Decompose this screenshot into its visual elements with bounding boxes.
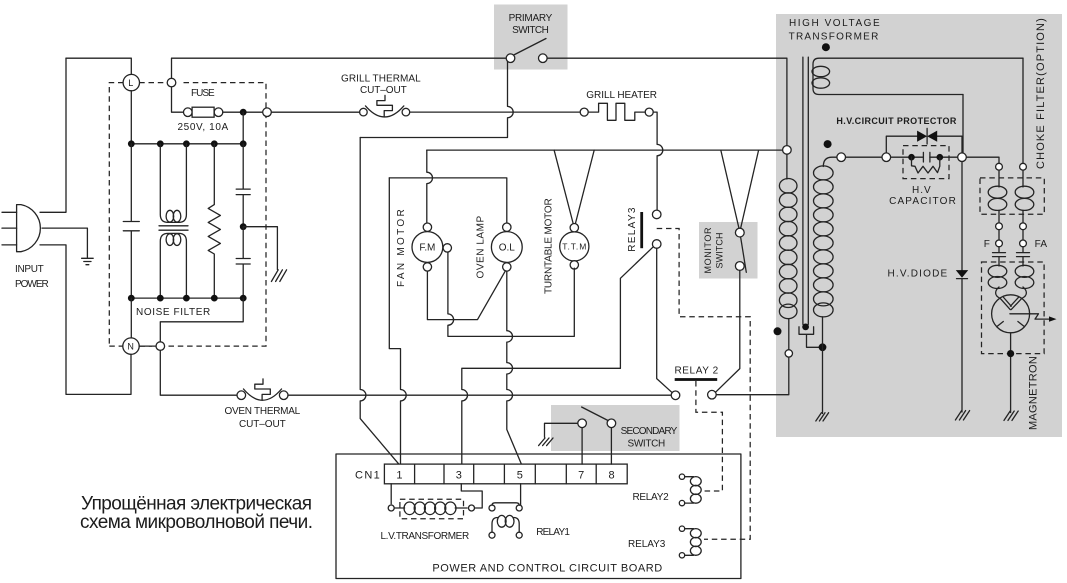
svg-text:OVEN THERMAL: OVEN THERMAL	[225, 406, 301, 417]
wire grill cut-out to grill heater	[410, 111, 581, 113]
top bus of filter	[131, 143, 243, 145]
magnetron anode ticks	[997, 322, 1025, 327]
motor rail	[427, 149, 787, 151]
relay3 contact bar	[640, 212, 643, 248]
oven thermal cut-out	[237, 391, 246, 400]
svg-text:F: F	[984, 239, 990, 250]
input power plug P1	[17, 205, 41, 252]
choke left wire top circle	[996, 163, 1003, 170]
relay3 feed wire to CN1 pin3 (hop over neutral)	[462, 368, 621, 464]
svg-text:SWITCH: SWITCH	[628, 439, 666, 450]
svg-text:RELAY2: RELAY2	[632, 492, 669, 503]
svg-text:H.V: H.V	[912, 185, 931, 196]
filament winding	[813, 58, 1023, 94]
wire filter output to grill cut-out	[271, 111, 359, 113]
wire node A up to rail	[172, 58, 506, 78]
grill heater element	[580, 108, 588, 116]
plug prong top	[2, 211, 17, 213]
svg-text:O.L: O.L	[499, 243, 515, 254]
relay1 contact bridge	[492, 503, 519, 506]
svg-text:MAGNETRON: MAGNETRON	[1028, 356, 1040, 430]
svg-text:GRILL THERMAL: GRILL THERMAL	[341, 74, 421, 85]
svg-text:POWER AND CONTROL CIRCUIT B: POWER AND CONTROL CIRCUIT BOARD	[432, 563, 662, 575]
wire monitor switch down to relay2 right	[716, 270, 740, 391]
core bottom junction dot	[802, 324, 809, 331]
magnetron cathode V	[1000, 297, 1021, 310]
grill cut-out bimetal step	[377, 95, 393, 116]
svg-text:TRANSFORMER: TRANSFORMER	[789, 32, 879, 43]
secondary switch SW2	[578, 419, 587, 428]
transformer core	[803, 57, 808, 324]
svg-text:1: 1	[396, 470, 402, 482]
plug prong middle	[2, 227, 17, 229]
svg-text:H.V.DIODE: H.V.DIODE	[888, 269, 948, 280]
lower choke coils	[999, 262, 1023, 266]
ground (magnetron)	[1004, 411, 1018, 420]
svg-text:CN1: CN1	[355, 469, 380, 481]
FM right terminal	[443, 244, 451, 252]
wire relay3 bottom to relay2 left	[657, 248, 672, 392]
junction dot secondary/core	[819, 343, 827, 351]
wire primary switch left contact down (hop over grill line)	[360, 62, 513, 138]
primary switch gray box	[494, 5, 568, 70]
turntable motor TTM	[560, 232, 589, 261]
svg-text:TURNTABLE MOTOR: TURNTABLE MOTOR	[544, 198, 555, 294]
svg-text:H.V.CIRCUIT PROTECTOR: H.V.CIRCUIT PROTECTOR	[836, 116, 957, 126]
wire OL bottom down to CN1 pin5 (3 hops)	[507, 271, 522, 464]
svg-text:RELAY3: RELAY3	[627, 207, 638, 252]
wire plug earth	[42, 228, 87, 258]
secondary winding (coil B)	[823, 157, 837, 166]
filter output node circle	[156, 342, 165, 351]
V-wires to turntable motor	[554, 150, 594, 224]
HV rail node circle 2	[882, 153, 891, 162]
junction dot magnetron ground	[1007, 350, 1014, 357]
plug prong bottom	[2, 244, 17, 246]
svg-text:MONITOR: MONITOR	[703, 227, 713, 274]
wire lamp rail down to CN1 pin1 (jog, hop over neutral)	[389, 178, 406, 464]
bottom bus of filter	[131, 297, 243, 299]
svg-text:8: 8	[609, 470, 615, 482]
grill cut-out arc	[366, 106, 404, 117]
svg-text:RELAY 2: RELAY 2	[675, 366, 719, 377]
choke mid circles	[996, 223, 1003, 230]
svg-text:CAPACITOR: CAPACITOR	[889, 196, 956, 207]
relay2 left contact	[671, 391, 680, 400]
ground (transformer)	[816, 413, 829, 421]
V-wires to monitor switch	[721, 150, 759, 228]
fan motor FM	[412, 232, 443, 263]
svg-text:F.M: F.M	[419, 243, 435, 254]
wire rail corner down to fan motor (hop over lamp rail)	[427, 150, 433, 223]
svg-text:SECONDARY: SECONDARY	[621, 426, 678, 437]
monitor switch SW3	[735, 228, 744, 237]
secondary switch lever	[582, 407, 608, 421]
OL bottom terminal	[503, 263, 511, 271]
node B (filter output to grill line)	[263, 108, 272, 117]
LVT coil	[394, 507, 467, 509]
svg-text:FA: FA	[1035, 239, 1048, 250]
svg-text:SWITCH: SWITCH	[512, 25, 549, 36]
primary switch lever	[514, 39, 546, 56]
HV cap junction dots	[908, 154, 915, 161]
svg-text:OVEN LAMP: OVEN LAMP	[476, 215, 487, 278]
wire relay3 bottom diagonal	[620, 247, 653, 369]
monitor switch gray box	[699, 222, 758, 279]
magnetron dashed box	[982, 262, 1045, 354]
connector CN1	[384, 464, 627, 484]
relay2 mech dashed link	[696, 381, 723, 491]
H.V. circuit protector (back-to-back diodes)	[886, 136, 962, 153]
polarity dot filament winding	[822, 43, 830, 51]
svg-text:L.V.TRANSFORMER: L.V.TRANSFORMER	[381, 531, 470, 542]
common-mode choke T1 winding top	[160, 144, 186, 223]
relay2 coil	[679, 474, 684, 479]
bottom bus junction dots	[128, 295, 135, 302]
wire FM right down to TTM bottom (hop over node A)	[448, 252, 574, 336]
svg-text:FAN MOTOR: FAN MOTOR	[396, 209, 407, 287]
choke core lines	[159, 226, 188, 230]
polarity dot primary	[774, 327, 782, 335]
svg-text:CHOKE FILTER(OPTION): CHOKE FILTER(OPTION)	[1035, 18, 1047, 169]
ground (H.V. diode)	[955, 411, 969, 420]
terminal N	[123, 338, 139, 354]
HV capacitor plates	[923, 152, 930, 162]
choke filter upper dashed box	[980, 178, 1044, 214]
junction dot fuse line	[240, 109, 247, 116]
svg-text:HIGH VOLTAGE: HIGH VOLTAGE	[789, 18, 880, 29]
svg-text:L: L	[128, 78, 133, 88]
F / FA terminals	[999, 230, 1023, 240]
OL top terminal	[503, 223, 511, 231]
capacitor C3 (lower right)	[236, 227, 250, 298]
wire dot down to bus	[242, 112, 244, 144]
wire N to output circle	[139, 345, 156, 347]
svg-text:NOISE FILTER: NOISE FILTER	[136, 307, 211, 318]
magnetron cathode stem	[1010, 333, 1012, 413]
wire fuse to node B	[223, 111, 263, 113]
resistor R1	[208, 144, 220, 298]
wire top rail to L	[66, 58, 131, 74]
relay3 top contact	[652, 210, 661, 219]
wire FM bottom to OL bottom (node A)	[427, 271, 505, 320]
svg-text:INPUT: INPUT	[15, 264, 44, 275]
LVT left terminal	[388, 505, 394, 511]
FM bottom terminal	[423, 263, 431, 271]
relay3 mech dashed link	[657, 229, 751, 540]
capacitor C2 (upper right)	[236, 144, 250, 227]
magnetron filament leads	[996, 287, 1027, 298]
H.V. diode	[961, 162, 963, 271]
node circle on primary return	[785, 350, 792, 357]
grill thermal cut-out	[360, 108, 368, 116]
wire to transformer ground	[822, 347, 824, 413]
primary winding (coil A)	[786, 154, 788, 179]
relay2 right contact	[708, 390, 717, 399]
svg-text:N: N	[127, 342, 133, 352]
power and control circuit board outline	[336, 454, 741, 579]
wire output down to oven cut-out	[160, 350, 237, 395]
svg-text:схема микроволновой печи.: схема микроволновой печи.	[80, 512, 313, 533]
wire grill heater to relay3 top (hop over motor rail)	[653, 112, 663, 210]
svg-text:PRIMARY: PRIMARY	[509, 13, 553, 24]
HV cap bleed resistor	[912, 157, 940, 173]
junction dot C2/C3	[240, 223, 247, 230]
wire plug hot to top rail	[40, 58, 66, 212]
svg-text:RELAY3: RELAY3	[628, 539, 666, 550]
wire filter output L-path	[160, 298, 243, 342]
wire LVT right to pin3	[461, 484, 482, 508]
wire primary switch right to HV transformer	[547, 58, 787, 145]
svg-text:RELAY1: RELAY1	[536, 527, 570, 538]
node circle rail to transformer	[783, 146, 792, 155]
LV transformer dashed box	[400, 499, 464, 519]
oven cut-out arc	[244, 389, 282, 400]
node A (fuse feed)	[167, 78, 176, 87]
wire plug neutral down	[40, 245, 131, 395]
core ground bracket	[799, 327, 819, 348]
svg-text:SWITCH: SWITCH	[715, 233, 725, 269]
svg-text:CUT–OUT: CUT–OUT	[360, 85, 407, 96]
oven cut-out bimetal step	[255, 379, 270, 400]
svg-text:CUT–OUT: CUT–OUT	[239, 419, 286, 430]
HV rail node circle 3	[958, 153, 967, 162]
wire feed down to CN1 pin1 (hop over neutral wire)	[360, 138, 399, 464]
wire cap midpoint to ground	[243, 227, 277, 270]
relay1 coil terminals	[489, 532, 495, 538]
svg-text:GRILL HEATER: GRILL HEATER	[586, 90, 657, 101]
top bus junction dots	[128, 140, 135, 147]
monitor switch lever	[741, 237, 747, 272]
wire L down to bus	[130, 91, 132, 144]
high-voltage gray panel	[776, 14, 1062, 437]
svg-text:T.T.M: T.T.M	[562, 241, 586, 251]
HV rail	[846, 157, 1000, 163]
wire node A down to fuse	[172, 87, 184, 112]
wire secondary sw left to pin7	[581, 428, 583, 465]
HV rail node circle 1	[837, 153, 846, 162]
TTM bottom terminal	[570, 261, 578, 269]
relay3 bottom contact	[652, 240, 661, 249]
neutral wire cut-out to relay2	[288, 394, 671, 396]
wire relay2 right to HV transformer primary	[716, 357, 789, 395]
polarity dot secondary	[824, 140, 832, 148]
lamp rail	[389, 178, 507, 223]
H.V. capacitor dashed box	[903, 146, 949, 179]
TTM top terminal	[570, 224, 578, 232]
svg-text:5: 5	[517, 470, 523, 482]
svg-text:FUSE: FUSE	[191, 88, 215, 99]
ground (secondary switch)	[539, 438, 553, 446]
wire secondary sw right to pin8	[610, 428, 612, 465]
svg-text:3: 3	[456, 470, 462, 482]
svg-text:250V, 10A: 250V, 10A	[178, 122, 229, 133]
magnetron output arrow	[1010, 314, 1050, 319]
upper choke coils	[999, 170, 1023, 223]
primary switch SW1	[506, 54, 515, 63]
wire pin5 down to relay1	[520, 484, 522, 506]
noise filter dashed box	[109, 83, 266, 347]
earth ground symbol (bars)	[82, 258, 94, 264]
capacitor C1 (left)	[123, 144, 139, 298]
secondary switch gray box	[551, 405, 680, 451]
relay1 contact terminals	[489, 505, 495, 511]
wire bus to N	[130, 298, 132, 338]
terminal L	[123, 74, 139, 90]
wire secondary switch ground lead	[545, 423, 578, 437]
relay1 coil	[492, 518, 519, 533]
relay3 coil	[679, 526, 684, 531]
choke right wire from filament	[1022, 58, 1024, 163]
relay2 contact bar	[675, 378, 718, 381]
feed-through capacitor plates	[993, 247, 1006, 262]
fuse F1	[184, 108, 193, 117]
svg-text:POWER: POWER	[15, 279, 49, 290]
ground (noise filter)	[271, 270, 286, 282]
FM top terminal	[423, 223, 431, 231]
oven lamp OL	[491, 232, 522, 263]
common-mode choke T1 winding bottom	[160, 233, 186, 298]
magnetron V1 body	[992, 295, 1030, 333]
svg-text:7: 7	[578, 470, 584, 482]
LVT right terminal	[469, 505, 475, 511]
wire filament bottom to HV node	[962, 95, 964, 153]
wire pin1 to LV transformer	[390, 484, 392, 504]
